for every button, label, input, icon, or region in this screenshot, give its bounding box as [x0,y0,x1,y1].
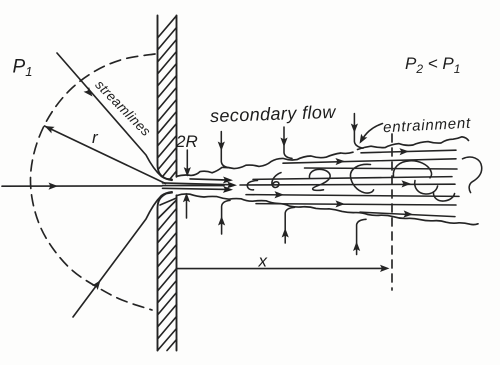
entrainment outer boundary (wavy) [358,137,469,150]
jet core line 4 [163,188,227,189]
jet streamline T1 (with arrow) [283,159,456,163]
svg-text:secondary flow: secondary flow [210,102,337,126]
jet streamline B3 (with arrow) [360,212,455,216]
svg-text:entrainment: entrainment [383,115,472,137]
jet core line 3 [163,185,225,187]
svg-text:2R: 2R [175,132,198,151]
secondary flow arrow top 2 [284,127,292,158]
jet centerline (with arrow) [240,183,455,186]
jet boundary top (wavy) [177,152,354,176]
secondary flow arrow bottom 3 [357,219,366,254]
vortex arc right-top [393,161,431,178]
secondary flow arrow top 3 [354,114,363,149]
streamline lower-left [73,192,172,317]
svg-text:r: r [92,128,99,147]
jet streamline B2 (with arrow) [256,204,456,205]
secondary flow arrow bottom 2 [285,207,294,243]
vortex curl 2 [309,169,330,190]
jet streamline T2 [305,168,458,169]
jet streamline T3 [253,177,452,180]
jet boundary bottom (wavy) [177,194,479,225]
entrainment pointer arrow [361,124,383,142]
2R dimension arrow top [186,150,188,172]
dashed measurement line vertical [391,134,393,290]
dashed arc (region of influence) [30,54,155,310]
jet streamline B1 (with arrow) [246,195,459,197]
vortex curl 6 [272,173,281,188]
radius line r [45,126,166,184]
vortex arc lower right [433,192,454,201]
svg-text:P2 < P1: P2 < P1 [405,54,460,76]
vortex hook near core [247,181,257,190]
wall upper section (hatched) [158,16,177,180]
wall lower section (hatched) [158,193,177,351]
secondary flow arrow top 1 [221,132,229,168]
svg-text:x: x [258,252,268,271]
streamline horizontal [2,185,162,187]
secondary flow arrow bottom 1 [222,200,230,234]
vortex tall curve far right [463,157,482,193]
jet core line 2 [163,183,230,185]
2R dimension arrow bottom [186,197,188,218]
jet streamline T0 (with arrow) [361,150,456,153]
vortex arc right-mid [415,181,438,195]
svg-text:P1: P1 [13,57,33,80]
jet core line 1 [190,179,226,180]
vortex big curl [350,164,373,193]
streamline upper-left [57,53,172,180]
x dimension line [177,267,386,269]
wall hatching [158,16,177,351]
